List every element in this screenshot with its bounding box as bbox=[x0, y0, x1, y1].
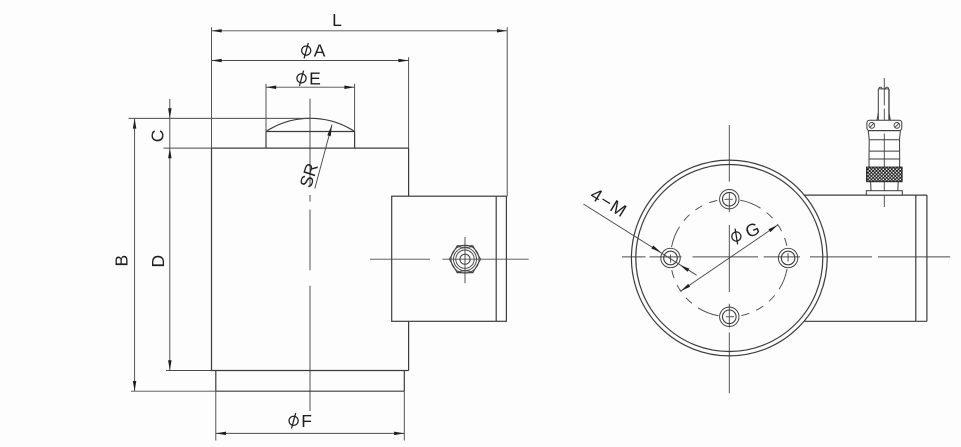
svg-text:C: C bbox=[148, 130, 168, 143]
svg-text:A: A bbox=[314, 41, 326, 61]
svg-text:F: F bbox=[301, 411, 312, 431]
svg-text:D: D bbox=[148, 255, 168, 268]
svg-text:B: B bbox=[112, 255, 132, 267]
svg-text:L: L bbox=[332, 10, 342, 30]
svg-text:E: E bbox=[309, 68, 321, 88]
